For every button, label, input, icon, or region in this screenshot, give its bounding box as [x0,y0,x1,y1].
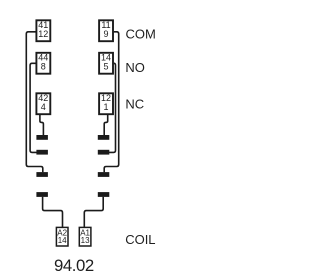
terminal box 42/4 [36,93,50,114]
wire from terminal 12/1 down to NC pin (right) [104,115,108,136]
NC contact pin bar (right) [98,135,110,140]
COM contact pin bar (left) [36,172,48,177]
svg-text:9: 9 [103,29,108,39]
svg-text:COIL: COIL [125,232,155,247]
svg-text:14: 14 [58,236,67,245]
terminal box A2/14 [56,227,68,246]
COM contact pin bar (right) [98,172,110,177]
svg-text:8: 8 [41,61,46,71]
terminal box A1/13 [79,227,91,246]
svg-text:1: 1 [103,102,108,112]
wire from terminal 41/12 to COM pin (left outer wire) [26,32,43,172]
svg-text:94.02: 94.02 [54,256,94,275]
terminal box 41/12 [36,20,50,41]
wire from terminal 42/4 down to NC pin (left) [40,115,44,136]
wire from coil pin to terminal A1/13 [84,197,103,227]
svg-text:5: 5 [103,61,108,71]
coil pin bar (left) [36,192,48,197]
svg-text:NC: NC [125,97,144,112]
svg-text:4: 4 [41,102,46,112]
NO contact pin bar (right) [98,150,110,155]
wire from terminal 44/8 to NO pin (left inner wire) [30,63,37,152]
NC contact pin bar (left) [36,135,48,140]
wire from terminal 11/9 to COM pin (right outer wire) [104,32,119,172]
terminal box 11/9 [99,20,113,41]
NO contact pin bar (left) [36,150,48,155]
svg-text:NO: NO [125,60,144,75]
svg-text:12: 12 [38,29,48,39]
coil pin bar (right) [98,192,110,197]
svg-text:COM: COM [126,27,156,42]
terminal box 44/8 [36,53,50,74]
wire from coil pin to terminal A2/14 [43,197,63,227]
svg-text:13: 13 [81,236,90,245]
terminal box 14/5 [99,53,113,74]
terminal box 12/1 [99,93,113,114]
wire from terminal 14/5 to NO pin (right inner wire) [108,63,116,152]
